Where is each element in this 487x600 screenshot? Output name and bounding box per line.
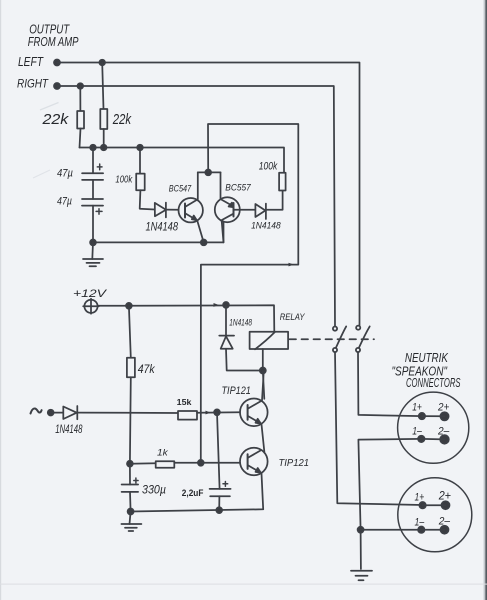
speakon connector J2 [398, 478, 472, 552]
wire bottom rail of sensing stage [93, 222, 224, 243]
wire node down to TIP121 collector [263, 371, 265, 399]
faint pencil smudge left of caps [33, 170, 50, 178]
terminal J1 2+ [440, 412, 448, 420]
svg-text:1N4148: 1N4148 [146, 220, 179, 234]
wire S1 lower lead down to speakon2 1+ [335, 352, 423, 505]
svg-text:2,2uF: 2,2uF [182, 488, 204, 499]
wire Q4 emitter down to ground rail [131, 474, 264, 512]
junction caps on rail [90, 145, 96, 151]
dashed mechanical link relay to contacts [290, 338, 375, 340]
scan artifact: left paper edge [0, 0, 1, 600]
svg-text:47µ: 47µ [57, 195, 72, 207]
node RIGHT input terminal [54, 83, 60, 89]
wire BC547 emitter down [197, 221, 203, 243]
junction 47k/1k/330u node [127, 461, 133, 467]
wire top summing rail [80, 148, 285, 173]
resistor R7 1k [130, 462, 156, 464]
wire collector bracket [198, 171, 221, 173]
switch S2 (left channel contact) [356, 326, 360, 330]
junction 100k on rail [137, 145, 143, 151]
transistor Q3 TIP121 (upper) [240, 399, 268, 427]
junction bracket [205, 170, 211, 176]
svg-text:BC547: BC547 [169, 184, 192, 194]
ground symbol right [351, 570, 372, 572]
label OUTPUT FROM AMP [28, 23, 79, 49]
svg-text:47k: 47k [138, 363, 156, 376]
arrow tick on feedback wire [289, 263, 295, 267]
svg-text:1k: 1k [157, 448, 169, 459]
junction 2.2uF on ground rail [216, 507, 222, 513]
terminal J1 2- [440, 435, 449, 444]
wire J2 1- to ground bus [361, 529, 422, 531]
svg-text:BC557: BC557 [225, 183, 251, 193]
svg-text:1+: 1+ [412, 401, 422, 413]
resistor R3 100k (left) [139, 148, 141, 174]
wire BC557 base to right diode [234, 209, 256, 211]
svg-text:330µ: 330µ [142, 484, 166, 496]
diode D4 1N4148 (AC detect) [63, 407, 76, 420]
diode D1 1N4148 (left) [155, 203, 166, 216]
label NEUTRIK SPEAKON CONNECTORS [392, 350, 461, 390]
junction flyback diode on +12V rail [223, 302, 229, 308]
svg-text:1N4148: 1N4148 [55, 422, 82, 436]
svg-text:1N4148: 1N4148 [251, 220, 281, 230]
transistor Q2 BC557 [215, 197, 240, 222]
wire bracket up over and down to driver base [201, 124, 298, 463]
junction ground rail left end [128, 509, 134, 515]
wire BC557 top lead up to bracket [220, 172, 222, 199]
wire Q3 collector up to relay node [262, 371, 264, 401]
wire between C1 and C2 [92, 180, 94, 199]
capacitor C4 2.2uF [217, 412, 220, 489]
resistor R5 47k [129, 306, 131, 358]
wire relay coil bottom to collector node [262, 349, 264, 371]
arrow tick on +12V rail [214, 303, 219, 307]
svg-text:100k: 100k [259, 160, 278, 172]
diode D3 1N4148 flyback [225, 305, 227, 336]
terminal J2 2+ [442, 501, 450, 509]
terminal J1 1- [418, 436, 424, 442]
junction 15k / 2.2uF / TIP base [214, 409, 220, 415]
svg-text:FROM AMP: FROM AMP [28, 35, 79, 49]
junction ground bus / J2 1- [358, 527, 364, 533]
junction on RIGHT rail [78, 83, 84, 89]
svg-text:RIGHT: RIGHT [17, 77, 49, 91]
svg-text:22k: 22k [41, 111, 69, 128]
svg-text:22k: 22k [112, 111, 132, 128]
wire LEFT rail to right then down to right relay switch [57, 63, 360, 326]
transistor Q4 TIP121 (lower) [240, 448, 268, 476]
resistor R2 22k (right) [102, 63, 103, 110]
wire BC557 bottom lead down to rail corner [222, 221, 224, 242]
wire S2 lower lead down to speakon1 1+ [358, 352, 422, 416]
scan artifact: right paper edge [485, 0, 487, 600]
terminal J2 1+ [419, 502, 425, 508]
diode D2 1N4148 (right) [255, 204, 265, 217]
junction on LEFT rail [99, 60, 105, 66]
scan artifact: bottom faint line [0, 584, 487, 585]
ground under sensing stage [91, 242, 94, 259]
resistor R4 100k (right) [279, 173, 286, 191]
junction BC547 emitter on bottom rail [201, 240, 207, 246]
+12V supply symbol [84, 300, 97, 313]
wire diode to 15k [77, 412, 178, 414]
wire BC547 collector up [197, 172, 199, 199]
relay K1 coil box [250, 332, 289, 349]
capacitor C1 47u [92, 148, 94, 174]
junction R2 on rail [101, 145, 107, 151]
svg-text:TIP121: TIP121 [279, 458, 310, 469]
junction relay/diode/collector [260, 368, 266, 374]
svg-text:100k: 100k [115, 173, 132, 185]
faint pencil smudge above left 22k [40, 103, 59, 111]
junction 47k on +12V rail [126, 303, 132, 309]
transistor Q1 BC547 [179, 198, 203, 222]
speakon connector J1 [398, 392, 469, 463]
junction caps/ground on bottom rail [90, 240, 96, 246]
resistor R6 15k [178, 411, 197, 420]
wire J1 1- to ground bus [358, 439, 421, 569]
svg-text:RELAY: RELAY [280, 312, 306, 322]
terminal J2 2- [441, 526, 449, 534]
svg-text:1N4148: 1N4148 [229, 317, 252, 327]
wire C2 down to bottom rail [92, 206, 94, 243]
resistor R1 22k (left) [79, 86, 81, 111]
capacitor C2 47u [82, 198, 103, 200]
wire +12V rail [98, 305, 275, 331]
junction driver base node [198, 460, 204, 466]
svg-text:CONNECTORS: CONNECTORS [406, 375, 461, 390]
svg-text:15k: 15k [177, 398, 192, 407]
wire Q3 emitter down to Q4 collector [262, 424, 265, 452]
node LEFT input terminal [54, 60, 60, 66]
svg-text:47µ: 47µ [57, 167, 73, 179]
svg-text:LEFT: LEFT [18, 55, 44, 69]
wire RIGHT rail to right then down to left relay switch [57, 86, 335, 327]
wire AC input to diode [51, 412, 64, 414]
switch S1 (right channel contact) [333, 327, 337, 331]
node AC detect input [31, 409, 42, 414]
terminal J2 1- [418, 527, 424, 533]
terminal J1 1+ [419, 413, 425, 419]
svg-text:TIP121: TIP121 [222, 385, 251, 397]
svg-text:+12V: +12V [73, 288, 108, 300]
ground symbol bottom-left [130, 512, 131, 525]
arrow tick on TIP base wire [206, 411, 211, 415]
capacitor C3 330u [129, 464, 131, 485]
